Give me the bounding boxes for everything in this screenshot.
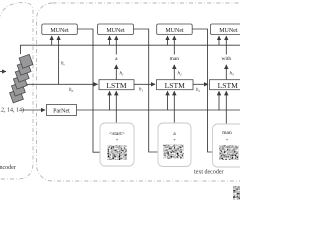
word box A [100,123,134,166]
ParNet arrow into LSTM2 [167,91,169,110]
svg-text:man: man [222,130,232,136]
ParNet box [47,105,77,116]
svg-text:h0: h0 [69,88,74,93]
MUNet U2 [98,24,134,35]
h2 arrow from LSTM2 [173,65,175,80]
text decoder region border [37,3,280,181]
svg-text:(512, 14, 14): (512, 14, 14) [0,106,24,113]
word box B arrow into LSTM2 [173,91,175,123]
svg-text:encoder: encoder [0,165,16,171]
word box B [158,123,191,167]
svg-text:+: + [116,139,119,144]
ParNet feed line [22,109,45,111]
word box C arrow into LSTM3 [225,91,227,124]
svg-text:a: a [115,56,118,62]
svg-text:LSTM: LSTM [165,81,186,90]
svg-text:hc: hc [61,62,66,67]
ParNet output line [77,109,241,111]
h1 arrow from LSTM1 [115,65,117,80]
ParNet arrow into LSTM3 [218,91,220,110]
svg-text:h2: h2 [178,72,183,77]
svg-text:MUNet: MUNet [219,28,238,34]
svg-text:MUNet: MUNet [106,28,125,34]
LSTM1 to LSTM2 line [134,83,155,85]
h3 arrow from LSTM3 [225,65,227,80]
svg-text:h3: h3 [230,72,235,77]
LSTM L1 [99,80,134,90]
ctx arrow into MUNet4 [218,36,220,45]
MUNet U3 [157,24,193,35]
LSTM2 to LSTM3 line [193,83,208,85]
svg-text:h1: h1 [120,72,125,77]
svg-text:+: + [173,139,176,144]
MUNet2 output wire to box B [134,29,164,152]
svg-text:MUNet: MUNet [165,28,184,34]
bottom-right noise thumbnail [234,187,242,199]
ctx arrow into MUNet3 [167,36,169,45]
context line from stack top [21,45,241,54]
svg-text:+: + [226,139,229,144]
MUNet1 output wire to box A [77,29,107,152]
encoder region border [0,3,33,180]
svg-text:MUNet: MUNet [50,28,69,34]
word a to MUNet2 arrow [115,36,117,55]
word with to MUNet4 arrow [225,36,227,55]
feature map stack [10,54,33,103]
svg-text:ParNet: ParNet [53,109,70,115]
ctx arrow into MUNet2 [109,36,111,45]
ParNet arrow into LSTM1 [109,91,111,110]
svg-text:h1: h1 [139,88,144,93]
h_c arrow into MUNet1 [58,36,60,84]
word box C [213,124,247,167]
MUNet U4 [210,24,246,35]
LSTM L2 [157,80,194,90]
svg-text:<start>: <start> [109,131,125,137]
word box A arrow into LSTM1 [115,91,117,123]
MUNet3 output wire to box C [192,29,218,152]
svg-text:man: man [170,56,180,62]
svg-text:with: with [222,56,232,62]
input arrow into stack [0,71,6,73]
word man to MUNet3 arrow [173,36,175,55]
svg-text:text decoder: text decoder [194,169,223,175]
svg-text:h2: h2 [196,88,201,93]
ctx arrow into MUNet1 [51,36,53,45]
LSTM L3 [210,80,247,90]
h_c line from stack to LSTM1 [27,83,98,85]
svg-text:LSTM: LSTM [218,81,239,90]
svg-text:LSTM: LSTM [106,81,127,90]
MUNet U1 [42,24,78,35]
